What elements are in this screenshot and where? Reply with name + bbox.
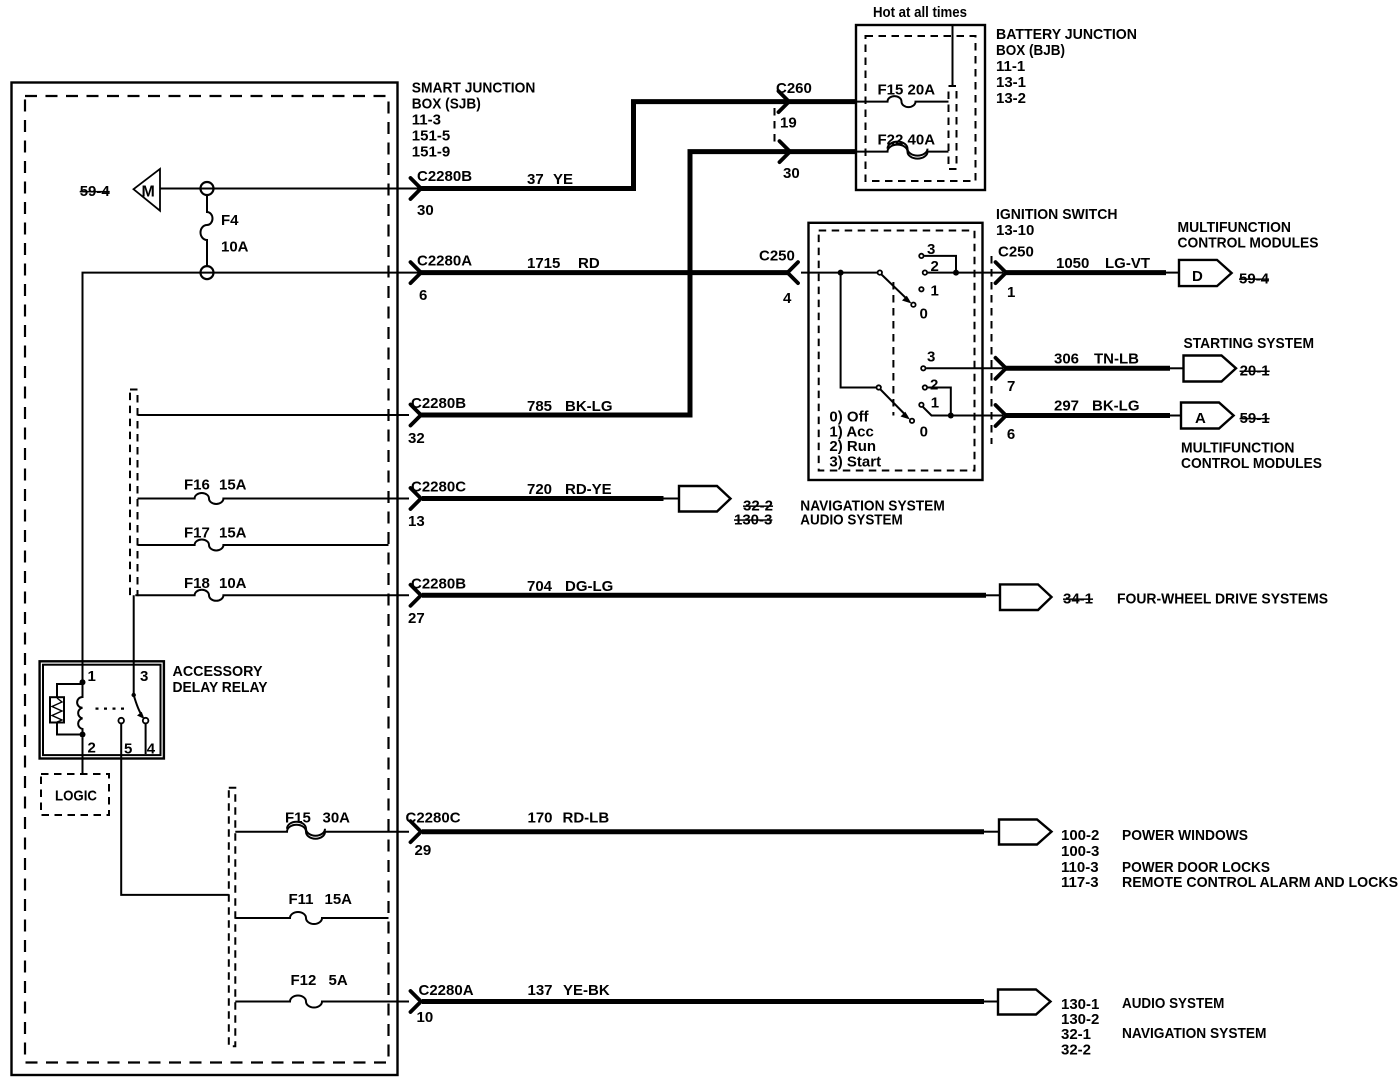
SJB output bus (dashed, F15/F11/F12) — [229, 788, 236, 1047]
relay resistor — [50, 684, 83, 735]
svg-text:1: 1 — [1007, 284, 1015, 301]
svg-text:32-2: 32-2 — [1061, 1042, 1091, 1059]
svg-text:13-1: 13-1 — [996, 74, 1026, 91]
fuse F15 30A — [235, 810, 409, 839]
wire lower contact 3 to C250 pin 7 — [926, 367, 1003, 369]
svg-text:F11: F11 — [289, 891, 314, 908]
svg-text:130-3: 130-3 — [734, 511, 772, 528]
connector C2280A pin 10 arrow — [411, 991, 422, 1012]
label POWER WINDOWS / POWER DOOR LOCKS / REMOTE CONTROL ALARM AND LOCKS — [1122, 827, 1398, 891]
svg-text:RD-LB: RD-LB — [563, 810, 610, 827]
connector C260 dashed boundary — [774, 108, 776, 146]
wire 720 RD-YE (thick) — [422, 496, 664, 501]
svg-text:6: 6 — [419, 287, 427, 304]
svg-text:F16: F16 — [184, 477, 210, 494]
connector C250 pin 6 arrow — [996, 405, 1007, 426]
battery junction box BJB inner dashed border — [866, 36, 976, 181]
junction terminal circle below fuse F4 — [201, 266, 214, 279]
label 297 BK-LG — [1054, 398, 1140, 415]
fuse F11 15A — [235, 891, 388, 924]
svg-text:DELAY RELAY: DELAY RELAY — [173, 679, 268, 696]
svg-text:3) Start: 3) Start — [829, 454, 881, 471]
wire thin tail to navigation pentagon — [664, 498, 680, 500]
svg-text:11-1: 11-1 — [996, 58, 1025, 75]
svg-text:30: 30 — [417, 202, 434, 219]
fuse F12 5A — [235, 972, 409, 1008]
svg-text:F15 20A: F15 20A — [878, 82, 936, 99]
off-page connector pentagon (starting system) — [1184, 356, 1237, 382]
svg-text:A: A — [1195, 410, 1206, 427]
connector C250 pin 7 arrow — [996, 358, 1007, 379]
wire 306 TN-LB (thick) — [1006, 366, 1170, 371]
svg-text:15A: 15A — [219, 525, 247, 542]
node references 100-2 100-3 110-3 117-3 — [1061, 827, 1099, 891]
label C250 pin 4 (input) — [759, 248, 795, 308]
junction node at lower output — [948, 413, 954, 419]
label C2280A pin 10 — [419, 982, 474, 999]
svg-text:15A: 15A — [325, 891, 353, 908]
svg-text:C2280B: C2280B — [411, 395, 466, 412]
svg-text:10A: 10A — [221, 239, 249, 256]
connector C250 pin 4 arrow (into switch) — [788, 262, 799, 283]
label C2280B pin 27 — [411, 575, 466, 592]
junction terminal circle above fuse F4 — [201, 182, 214, 195]
wire lower contact 1 diagonal to output — [923, 407, 1003, 416]
svg-text:AUDIO SYSTEM: AUDIO SYSTEM — [800, 511, 902, 528]
relay pin 2 node — [80, 732, 96, 757]
connector C2280C pin 13 arrow — [411, 488, 422, 509]
svg-text:MULTIFUNCTION: MULTIFUNCTION — [1181, 440, 1295, 457]
off-page connector pentagon (audio/navigation) — [998, 990, 1051, 1015]
upper wafer pivot — [878, 270, 882, 274]
svg-text:M: M — [142, 184, 155, 201]
svg-text:F22 40A: F22 40A — [878, 132, 936, 149]
label IGNITION SWITCH 13-10 — [996, 206, 1118, 239]
wire thin tail to A pentagon — [1170, 415, 1181, 417]
smart junction box SJB outer solid border — [12, 83, 398, 1076]
connector C250 pin 1 arrow — [996, 262, 1007, 283]
wire BJB feed from Hot at all times — [952, 25, 954, 86]
wire 170 RD-LB (thick) — [422, 829, 984, 834]
svg-text:100-3: 100-3 — [1061, 843, 1099, 860]
svg-text:C2280B: C2280B — [417, 168, 472, 185]
svg-text:1: 1 — [88, 668, 96, 685]
svg-text:100-2: 100-2 — [1061, 827, 1099, 844]
svg-text:BK-LG: BK-LG — [565, 398, 613, 415]
upper contact 3 — [919, 241, 935, 258]
svg-text:151-5: 151-5 — [412, 128, 450, 145]
upper contact 2 — [923, 258, 939, 275]
svg-text:30: 30 — [783, 165, 800, 182]
svg-text:BOX (SJB): BOX (SJB) — [412, 96, 481, 113]
svg-text:30A: 30A — [323, 810, 351, 827]
svg-text:0: 0 — [920, 306, 928, 323]
svg-text:3: 3 — [140, 668, 148, 685]
wire lower contact 2 loop to output — [928, 388, 951, 416]
accessory delay relay outer border — [40, 661, 164, 758]
accessory delay relay inner border — [43, 665, 161, 755]
wire relay pin 5 down to output bus — [121, 723, 229, 895]
svg-text:2: 2 — [930, 377, 938, 394]
fuse F17 15A — [138, 525, 389, 551]
junction node on input wire — [838, 270, 844, 276]
svg-text:YE-BK: YE-BK — [563, 982, 610, 999]
wire thin tail to audio pentagon — [984, 1001, 998, 1003]
connector C2280C pin 29 arrow — [411, 821, 422, 842]
svg-text:29: 29 — [415, 842, 432, 859]
SJB internal fuse bus (dashed, F16/F17/F18) — [130, 390, 138, 596]
svg-text:10: 10 — [417, 1009, 434, 1026]
svg-text:32: 32 — [408, 430, 425, 447]
battery junction box BJB outer solid border — [856, 25, 985, 190]
relay actuation dotted link — [96, 707, 130, 709]
svg-text:F4: F4 — [221, 212, 239, 229]
label 137 YE-BK — [528, 982, 610, 999]
label 170 RD-LB — [528, 810, 610, 827]
wire 785 BK-LG thin segment from bus — [138, 414, 410, 416]
lower contact 2 — [923, 377, 939, 394]
ignition switch internal dashed divider — [892, 282, 894, 416]
svg-text:LOGIC: LOGIC — [55, 788, 97, 805]
wire SJB pin 6 run (thin) with corner down to relay pin 1 — [83, 273, 422, 683]
wire 704 DG-LG (thick) — [422, 593, 986, 598]
relay pin 5 contact — [118, 718, 132, 758]
label 704 DG-LG — [527, 578, 613, 595]
label MULTIFUNCTION CONTROL MODULES (bottom) — [1181, 440, 1322, 473]
upper contact 1 — [919, 283, 939, 300]
ignition switch inner dashed border — [819, 231, 975, 471]
svg-text:59-1: 59-1 — [1240, 410, 1270, 427]
svg-text:59-4: 59-4 — [80, 183, 111, 200]
svg-text:CONTROL MODULES: CONTROL MODULES — [1178, 235, 1319, 252]
svg-text:5A: 5A — [329, 972, 348, 989]
label 720 RD-YE — [527, 481, 612, 498]
wire 137 YE-BK (thick) — [422, 999, 984, 1004]
wire 1050 LG-VT (thick) — [1006, 270, 1166, 275]
svg-text:BK-LG: BK-LG — [1092, 398, 1140, 415]
label switch positions Off/Acc/Run/Start — [829, 409, 881, 471]
connector C2280B pin 32 arrow — [411, 405, 422, 426]
wire junction down to lower wafer pivot — [841, 273, 876, 388]
fuse F22 40A (BJB) — [856, 132, 949, 159]
relay switch arm from pin 3 — [132, 693, 136, 697]
svg-text:10A: 10A — [219, 575, 247, 592]
svg-text:POWER WINDOWS: POWER WINDOWS — [1122, 827, 1248, 844]
wire thin tail to D pentagon — [1166, 272, 1179, 274]
svg-text:13-2: 13-2 — [996, 90, 1026, 107]
off-page connector pentagon A — [1181, 403, 1234, 429]
relay pin 1 node — [80, 668, 96, 685]
connector C2280B pin 27 arrow — [411, 585, 422, 606]
wire thin tail to power windows pentagon — [984, 831, 999, 833]
svg-text:170: 170 — [528, 810, 553, 827]
svg-text:20-1: 20-1 — [1240, 363, 1270, 380]
svg-text:REMOTE CONTROL ALARM AND LOCKS: REMOTE CONTROL ALARM AND LOCKS — [1122, 874, 1398, 891]
svg-text:704: 704 — [527, 578, 553, 595]
label C2280C pin 29 — [406, 810, 461, 827]
label C2280C pin 13 — [411, 479, 466, 496]
svg-text:F17: F17 — [184, 525, 210, 542]
BJB internal bus bar (dashed) — [949, 86, 957, 169]
smart junction box SJB inner dashed border — [25, 96, 389, 1063]
lower contact 0 — [910, 419, 928, 441]
node 32-2 130-3 references — [734, 498, 773, 529]
upper wafer arm toward 0 — [882, 275, 909, 301]
svg-text:4: 4 — [783, 290, 792, 307]
label SMART JUNCTION BOX (SJB) — [412, 80, 536, 161]
svg-text:1: 1 — [931, 283, 939, 300]
connector C2280B pin 30 arrow — [411, 178, 422, 199]
logic module dashed box — [41, 774, 109, 815]
svg-text:59-4: 59-4 — [1239, 271, 1270, 288]
svg-text:TN-LB: TN-LB — [1094, 351, 1139, 368]
lower contact 1 — [919, 395, 939, 412]
relay coil — [77, 682, 82, 734]
wire thin tail to starting pentagon — [1170, 367, 1184, 369]
wire contact 2 to C250 pin 1 — [928, 272, 1003, 274]
svg-text:F12: F12 — [291, 972, 317, 989]
svg-text:STARTING SYSTEM: STARTING SYSTEM — [1184, 335, 1315, 352]
svg-text:32-1: 32-1 — [1061, 1026, 1091, 1043]
wire 785 BK-LG (thick) from SJB pin 32 up to BJB F22 — [421, 152, 856, 415]
wire 297 BK-LG (thick) — [1006, 413, 1170, 418]
svg-text:27: 27 — [408, 610, 425, 627]
svg-text:CONTROL MODULES: CONTROL MODULES — [1181, 455, 1322, 472]
wire thin tail to 4WD pentagon — [986, 594, 1000, 596]
label 1715 RD — [527, 255, 600, 272]
svg-text:FOUR-WHEEL DRIVE SYSTEMS: FOUR-WHEEL DRIVE SYSTEMS — [1117, 591, 1328, 608]
label MULTIFUNCTION CONTROL MODULES (top) — [1178, 219, 1319, 252]
svg-text:297: 297 — [1054, 398, 1079, 415]
label BATTERY JUNCTION BOX (BJB) — [996, 26, 1137, 107]
svg-text:37: 37 — [527, 171, 544, 188]
svg-text:19: 19 — [780, 115, 797, 132]
svg-text:785: 785 — [527, 398, 552, 415]
svg-text:11-3: 11-3 — [412, 112, 441, 129]
label 306 TN-LB — [1054, 351, 1139, 368]
svg-text:1050: 1050 — [1056, 255, 1089, 272]
svg-text:DG-LG: DG-LG — [565, 578, 613, 595]
wire contact 3 loop to output — [924, 256, 956, 273]
svg-text:C2280C: C2280C — [411, 479, 466, 496]
svg-text:6: 6 — [1007, 426, 1015, 443]
svg-text:RD-YE: RD-YE — [565, 481, 612, 498]
svg-text:YE: YE — [553, 171, 573, 188]
off-page connector pentagon (power windows) — [999, 820, 1052, 845]
junction node at upper output — [953, 270, 959, 276]
label C250 pin 1 (output) — [998, 244, 1034, 302]
svg-text:137: 137 — [528, 982, 553, 999]
label C2280B pin 32 — [411, 395, 466, 412]
svg-text:1715: 1715 — [527, 255, 560, 272]
lower wafer arm toward 0 — [881, 390, 908, 417]
label 785 BK-LG — [527, 398, 613, 415]
svg-text:F15: F15 — [285, 810, 311, 827]
svg-text:3: 3 — [927, 349, 935, 366]
svg-text:15A: 15A — [219, 477, 247, 494]
svg-text:13: 13 — [408, 513, 425, 530]
lower contact 3 — [921, 349, 935, 371]
svg-text:C260: C260 — [776, 80, 812, 97]
svg-text:1: 1 — [931, 395, 939, 412]
relay pin 4 contact — [143, 718, 156, 758]
fuse F4 10A — [201, 195, 249, 266]
fuse F15 20A (BJB) — [856, 82, 949, 108]
svg-text:151-9: 151-9 — [412, 144, 450, 161]
upper contact 0 — [911, 303, 928, 323]
svg-text:C2280B: C2280B — [411, 575, 466, 592]
svg-text:LG-VT: LG-VT — [1105, 255, 1150, 272]
svg-text:C250: C250 — [759, 248, 795, 265]
label AUDIO SYSTEM / NAVIGATION SYSTEM — [1122, 995, 1267, 1042]
wire 37 YE (thick) from SJB pin 30 up to BJB F15 — [421, 102, 856, 189]
motor arrow M (triangle) — [134, 169, 161, 211]
svg-text:C2280C: C2280C — [406, 810, 461, 827]
svg-text:RD: RD — [578, 255, 600, 272]
svg-text:5: 5 — [124, 741, 132, 758]
svg-text:BATTERY JUNCTION: BATTERY JUNCTION — [996, 26, 1137, 43]
svg-text:C2280A: C2280A — [417, 253, 472, 270]
svg-text:0: 0 — [920, 424, 928, 441]
svg-text:720: 720 — [527, 481, 552, 498]
svg-text:IGNITION SWITCH: IGNITION SWITCH — [996, 206, 1118, 223]
svg-text:SMART JUNCTION: SMART JUNCTION — [412, 80, 536, 97]
lower wafer pivot — [877, 385, 881, 389]
off-page connector pentagon to navigation/audio — [679, 486, 731, 512]
connector C260 pin 19 arrow — [779, 91, 790, 112]
off-page connector pentagon to four-wheel drive — [1000, 584, 1052, 610]
svg-text:34-1: 34-1 — [1063, 591, 1093, 608]
svg-text:2: 2 — [88, 740, 96, 757]
svg-text:306: 306 — [1054, 351, 1079, 368]
svg-text:7: 7 — [1007, 378, 1015, 395]
svg-text:NAVIGATION SYSTEM: NAVIGATION SYSTEM — [1122, 1025, 1267, 1042]
fuse F18 10A — [138, 575, 410, 601]
ignition switch outer solid border — [809, 223, 983, 480]
node references 130-1 130-2 32-1 32-2 — [1061, 996, 1099, 1059]
svg-text:MULTIFUNCTION: MULTIFUNCTION — [1178, 219, 1292, 236]
connector C260 pin 30 arrow — [780, 141, 791, 162]
label NAVIGATION SYSTEM / AUDIO SYSTEM — [800, 498, 945, 529]
svg-text:C2280A: C2280A — [419, 982, 474, 999]
connector C250 dashed boundary (output side) — [991, 256, 993, 444]
svg-text:Hot at all times: Hot at all times — [873, 4, 967, 21]
label C2280B pin 30 — [417, 168, 472, 185]
fuse F16 15A — [138, 477, 410, 505]
wire bus to accessory delay relay pin 3 — [133, 595, 135, 695]
svg-text:117-3: 117-3 — [1061, 874, 1099, 891]
svg-text:BOX (BJB): BOX (BJB) — [996, 42, 1065, 59]
label C2280A pin 6 — [417, 253, 472, 270]
off-page connector pentagon D — [1179, 260, 1232, 286]
svg-text:D: D — [1192, 268, 1203, 285]
label ACCESSORY DELAY RELAY — [173, 663, 268, 696]
label 1050 LG-VT — [1056, 255, 1150, 272]
relay pin 4 wire to case — [145, 723, 147, 754]
svg-text:4: 4 — [147, 741, 156, 758]
wire C250 pin 4 into switch — [801, 272, 879, 274]
svg-text:C250: C250 — [998, 244, 1034, 261]
wire M arrow to SJB pin 30 — [160, 188, 421, 190]
svg-text:F18: F18 — [184, 575, 210, 592]
svg-text:ACCESSORY: ACCESSORY — [173, 663, 263, 680]
connector C2280A pin 6 arrow — [411, 262, 422, 283]
wire relay pin 2 to logic module — [82, 738, 84, 775]
wire 1715 RD (thick) from SJB pin 6 to ignition switch C250 — [421, 270, 789, 275]
label 37 YE — [527, 171, 573, 188]
svg-text:13-10: 13-10 — [996, 222, 1034, 239]
svg-text:AUDIO SYSTEM: AUDIO SYSTEM — [1122, 995, 1224, 1012]
